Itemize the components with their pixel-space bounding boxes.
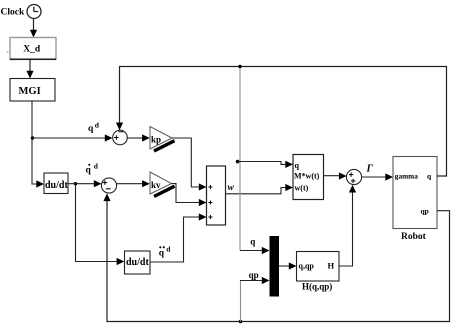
svg-text:kv: kv: [151, 180, 161, 190]
block Robot: [393, 157, 437, 229]
block du/dt 2: [125, 251, 151, 274]
node qp feedback branch: [239, 320, 243, 324]
svg-text:MGI: MGI: [19, 86, 41, 97]
wire qp feedback from Robot: [103, 193, 449, 321]
svg-text:qp: qp: [249, 270, 259, 280]
svg-text:q: q: [295, 161, 300, 170]
wire w to M*w(t): [226, 184, 294, 194]
wire q feedback vertical: [239, 67, 241, 251]
wire branch to sum1: [32, 134, 113, 141]
block du/dt 1: [44, 173, 68, 194]
gain kv: [150, 172, 175, 197]
label qdot^d: [86, 162, 99, 176]
svg-text:q: q: [88, 124, 94, 134]
node q to M: [236, 160, 240, 164]
clock source icon: [27, 5, 41, 19]
wire kv to w-sum input2: [172, 184, 207, 207]
wire sum1 to kp: [127, 134, 150, 141]
wire clock to X_d: [30, 19, 37, 38]
wire H to sum3: [339, 185, 356, 266]
svg-text:qp: qp: [421, 206, 429, 215]
block MGI: [10, 79, 55, 102]
wire MGI down and to du/dt: [32, 101, 44, 188]
summing junction sum2: [101, 178, 116, 193]
mux bar: [270, 236, 280, 297]
node branch after du/dt: [74, 182, 77, 185]
wire du/dt to sum2: [68, 180, 102, 187]
svg-text:M*w(t): M*w(t): [294, 171, 320, 180]
svg-text:q,qp: q,qp: [299, 261, 315, 270]
wire kp to w-sum input1: [172, 138, 207, 191]
wire q into mux: [240, 247, 270, 254]
wire du/dt branch down to du/dt2: [76, 184, 125, 265]
svg-text:H: H: [328, 261, 335, 271]
wire du/dt2 to w-sum input3: [150, 213, 207, 262]
wire sum3 to Robot: [362, 173, 393, 180]
svg-text:q: q: [86, 166, 92, 176]
node q feedback branch: [238, 65, 241, 68]
svg-text:kp: kp: [151, 134, 161, 144]
svg-text:H(q,qp): H(q,qp): [302, 282, 332, 292]
svg-text:du/dt: du/dt: [45, 180, 68, 191]
wire sum2 to kv: [117, 180, 150, 187]
svg-text:X_d: X_d: [23, 45, 41, 55]
svg-text:w: w: [228, 183, 235, 193]
block H(q,qp): [297, 252, 340, 282]
gain kp: [150, 127, 175, 152]
node branch to sum1: [31, 136, 34, 139]
wire qp up into mux: [240, 277, 270, 322]
svg-text:du/dt: du/dt: [126, 257, 149, 268]
label qddot^d: [159, 245, 171, 259]
sum block w: [207, 166, 226, 225]
svg-text:w(t): w(t): [295, 183, 309, 192]
stray mark: [7, 52, 9, 53]
wire q into M input: [238, 161, 293, 168]
svg-text:gamma: gamma: [395, 171, 418, 180]
wire X_d to MGI: [26, 60, 33, 79]
wire q feedback from Robot: [116, 67, 447, 177]
summing junction sum3: [346, 169, 361, 184]
svg-text:q: q: [250, 237, 255, 247]
svg-text:Γ: Γ: [366, 163, 374, 174]
label q^d: [88, 121, 100, 135]
svg-text:Robot: Robot: [401, 232, 427, 242]
block M*w(t): [293, 155, 324, 200]
svg-text:Clock: Clock: [1, 8, 25, 18]
svg-text:q: q: [159, 249, 165, 259]
summing junction sum1: [113, 130, 128, 145]
wire mux to H block: [279, 262, 297, 269]
wire M to sum3: [324, 172, 347, 179]
block X_d: [10, 38, 56, 60]
